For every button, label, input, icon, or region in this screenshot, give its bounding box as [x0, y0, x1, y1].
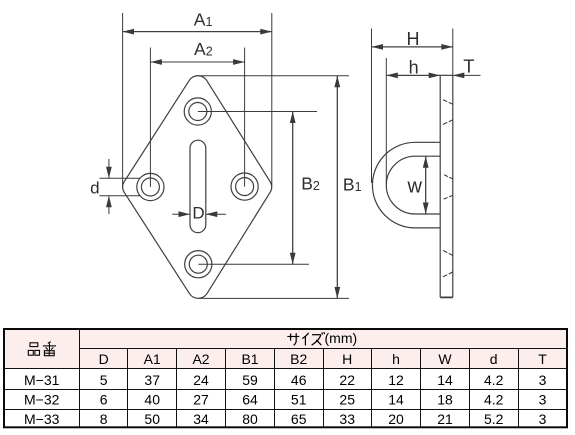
svg-text:W: W: [438, 351, 452, 367]
svg-text:3: 3: [539, 372, 547, 388]
svg-text:H: H: [342, 351, 352, 367]
svg-text:D: D: [99, 351, 109, 367]
plate top edge: [440, 74, 453, 76]
hole right inner: [236, 178, 254, 196]
svg-text:3: 3: [539, 411, 547, 427]
center slot: [190, 140, 206, 233]
plate right face: [452, 75, 454, 297]
svg-text:B1: B1: [241, 351, 258, 367]
svg-text:A1: A1: [144, 351, 161, 367]
svg-text:B2: B2: [290, 351, 307, 367]
break mark 1b: [443, 120, 453, 125]
side view: [372, 75, 452, 297]
svg-text:12: 12: [388, 372, 404, 388]
plate outline (front view diamond): [123, 76, 272, 299]
svg-text:M−31: M−31: [24, 372, 60, 388]
svg-text:4.2: 4.2: [484, 392, 504, 408]
kanji 番: [48, 342, 51, 344]
w dimension line: [425, 156, 427, 214]
B1 dimension line: [336, 76, 338, 299]
svg-text:59: 59: [242, 372, 258, 388]
H ext line right (plate face extension): [452, 29, 454, 76]
break mark 2a: [444, 175, 453, 179]
svg-text:18: 18: [437, 392, 453, 408]
row line under column headers: [4, 368, 567, 370]
svg-text:B1: B1: [343, 175, 362, 195]
svg-text:24: 24: [193, 372, 209, 388]
break mark 2b: [444, 195, 453, 199]
svg-text:22: 22: [339, 372, 355, 388]
eye loop inner: [386, 156, 440, 214]
hole top inner: [189, 103, 207, 121]
svg-text:(mm): (mm): [325, 330, 358, 346]
svg-text:34: 34: [193, 411, 209, 427]
B2 dimension line: [292, 112, 294, 265]
svg-text:21: 21: [437, 411, 453, 427]
A2 dimension line: [150, 61, 244, 63]
svg-text:40: 40: [144, 392, 160, 408]
svg-text:T: T: [538, 351, 547, 367]
品番 kanji (drawn): [28, 343, 39, 355]
svg-text:27: 27: [193, 392, 209, 408]
column line after W: [469, 349, 471, 428]
svg-text:14: 14: [437, 372, 453, 388]
B2 ext line top: [198, 111, 317, 113]
svg-text:H: H: [407, 29, 420, 49]
eye loop outer: [372, 142, 440, 228]
column line after 品番: [79, 329, 81, 428]
D arrow left: [172, 213, 190, 215]
hole bottom outer: [185, 251, 212, 278]
column line after A2: [225, 349, 227, 428]
svg-text:d: d: [90, 179, 99, 198]
hole left outer: [137, 173, 164, 200]
h ext line left: [385, 58, 387, 184]
column line after A1: [176, 349, 178, 428]
column line after H: [371, 349, 373, 428]
d ext line top: [100, 177, 141, 179]
svg-text:65: 65: [291, 411, 307, 427]
svg-text:46: 46: [291, 372, 307, 388]
data row M-32: [24, 392, 547, 408]
column line after B1: [274, 349, 276, 428]
column line after h: [420, 349, 422, 428]
svg-text:64: 64: [242, 392, 258, 408]
svg-text:A2: A2: [192, 351, 209, 367]
A2 ext line left: [149, 48, 151, 188]
svg-text:6: 6: [100, 392, 108, 408]
svg-text:4.2: 4.2: [484, 372, 504, 388]
hole right outer: [231, 173, 258, 200]
column line after B2: [323, 349, 325, 428]
svg-text:d: d: [490, 351, 498, 367]
svg-text:25: 25: [339, 392, 355, 408]
data row M-33: [24, 411, 547, 427]
row line under M-32: [4, 409, 567, 411]
svg-text:50: 50: [144, 411, 160, 427]
svg-text:3: 3: [539, 392, 547, 408]
plate bottom edge: [440, 296, 453, 298]
svg-text:5: 5: [100, 372, 108, 388]
data row M-31: [24, 372, 547, 388]
svg-text:20: 20: [388, 411, 404, 427]
column line after D: [127, 349, 129, 428]
break mark 1a: [443, 100, 453, 104]
d ext line bottom: [100, 195, 141, 197]
table outer border: [4, 329, 567, 427]
svg-text:M−32: M−32: [24, 392, 60, 408]
svg-text:w: w: [406, 175, 422, 197]
hole bottom inner: [189, 255, 207, 273]
A1 dimension line: [123, 31, 272, 33]
svg-text:80: 80: [242, 411, 258, 427]
A2 ext line right: [244, 48, 246, 187]
H dimension line: [372, 46, 453, 48]
svg-text:37: 37: [144, 372, 160, 388]
hole left inner: [141, 178, 159, 196]
svg-text:M−33: M−33: [24, 411, 60, 427]
A1 ext line right: [271, 13, 273, 186]
svg-text:8: 8: [100, 411, 108, 427]
svg-text:A2: A2: [194, 39, 213, 59]
header background pink: [5, 330, 566, 369]
h dimension line: [386, 74, 440, 76]
table inner lines: [4, 329, 567, 428]
svg-text:14: 14: [388, 392, 404, 408]
B1 ext line bottom: [199, 297, 350, 299]
katakana ズ: [312, 332, 325, 345]
svg-text:5.2: 5.2: [484, 411, 504, 427]
row line under size header: [80, 348, 568, 350]
katakana サ: [287, 333, 299, 345]
break mark 3a: [443, 251, 453, 256]
svg-text:A1: A1: [194, 10, 213, 30]
plate left face: [439, 75, 441, 297]
column line after d: [518, 349, 520, 428]
svg-text:B2: B2: [301, 173, 320, 193]
katakana イ: [302, 333, 308, 346]
svg-text:D: D: [192, 203, 204, 222]
svg-text:h: h: [409, 58, 419, 78]
svg-text:T: T: [463, 56, 474, 77]
svg-text:h: h: [392, 351, 400, 367]
H ext line left: [371, 29, 373, 184]
column header row text: [99, 351, 548, 367]
d arrow bottom: [108, 196, 110, 214]
break mark 3b: [443, 272, 453, 277]
d arrow top: [108, 159, 110, 178]
row line under M-31: [4, 389, 567, 391]
T dimension arrow: [453, 74, 481, 76]
A1 ext line left: [122, 13, 124, 186]
svg-text:33: 33: [339, 411, 355, 427]
B2 ext line bottom: [198, 263, 309, 265]
B1 ext line top: [197, 75, 350, 77]
D arrow right: [206, 213, 226, 215]
kanji 品: [30, 343, 38, 347]
svg-text:51: 51: [291, 392, 307, 408]
hole top outer: [184, 98, 211, 125]
